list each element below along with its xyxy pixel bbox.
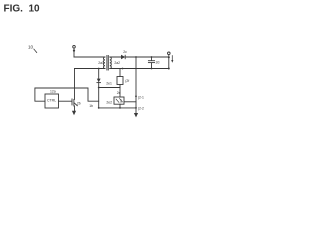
svg-text:2c: 2c xyxy=(123,50,127,54)
svg-text:2a2: 2a2 xyxy=(114,61,120,65)
svg-text:(2f: (2f xyxy=(125,79,129,83)
svg-text:(2-1: (2-1 xyxy=(138,95,144,99)
svg-text:1b: 1b xyxy=(89,104,93,108)
svg-text:2d: 2d xyxy=(156,61,160,65)
svg-text:2b: 2b xyxy=(77,101,81,105)
svg-text:12a: 12a xyxy=(50,89,56,93)
svg-text:2e1: 2e1 xyxy=(106,81,112,85)
svg-text:10: 10 xyxy=(28,44,34,49)
svg-text:CTRL: CTRL xyxy=(47,99,56,103)
svg-text:2e2: 2e2 xyxy=(106,100,112,104)
svg-text:2a1: 2a1 xyxy=(98,61,104,65)
svg-text:2e: 2e xyxy=(117,91,121,95)
svg-text:(2-2: (2-2 xyxy=(138,106,144,110)
svg-text:FIG. 10: FIG. 10 xyxy=(4,4,41,15)
